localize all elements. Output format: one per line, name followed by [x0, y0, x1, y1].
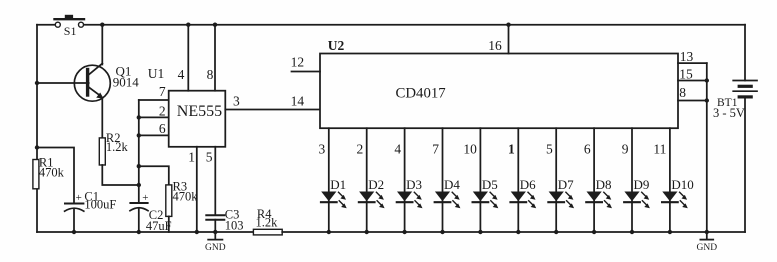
wire cathode D5 [479, 128, 481, 232]
wire pin1 to rail [196, 147, 198, 232]
capacitor C2 [130, 192, 172, 233]
ground center [205, 232, 226, 253]
wire cathode D3 [404, 128, 406, 232]
svg-text:D7: D7 [558, 177, 574, 192]
svg-text:470k: 470k [173, 189, 199, 203]
LED D4 [435, 177, 461, 208]
wire pin5 to C3 [214, 147, 216, 215]
wire top rail left segment [37, 24, 55, 26]
svg-text:NE555: NE555 [177, 103, 222, 120]
svg-text:13: 13 [680, 49, 694, 64]
svg-text:3: 3 [319, 142, 326, 157]
LED D8 [586, 177, 612, 208]
LED D5 [473, 177, 499, 208]
svg-text:5: 5 [206, 150, 213, 165]
wire pin3 to pin14 [225, 109, 320, 111]
svg-text:D10: D10 [671, 177, 693, 192]
wire cathode D10 [669, 128, 671, 232]
wire bottom rail left [37, 231, 253, 233]
node R2 tee [137, 183, 141, 187]
wire pin8 stub [678, 100, 707, 102]
resistor R1 [33, 156, 65, 189]
node D6 rail [516, 230, 520, 234]
svg-text:9014: 9014 [113, 75, 140, 90]
svg-text:D8: D8 [596, 177, 612, 192]
svg-text:+: + [142, 192, 148, 204]
svg-text:CD4017: CD4017 [396, 86, 446, 102]
ground right [697, 232, 718, 253]
svg-text:15: 15 [679, 66, 693, 81]
svg-text:1: 1 [508, 142, 515, 157]
svg-text:GND: GND [205, 243, 226, 253]
IC U2 CD4017 [291, 38, 694, 128]
svg-text:D2: D2 [368, 177, 384, 192]
svg-text:100uF: 100uF [84, 197, 116, 211]
wire cathode D8 [593, 128, 595, 232]
svg-text:470k: 470k [39, 165, 65, 179]
node pin8 rail [213, 23, 217, 27]
resistor R3 [166, 180, 198, 217]
node pin6 tee [137, 133, 141, 137]
wire pin7 stub [139, 99, 169, 101]
node collector-rail [100, 23, 104, 27]
LED D2 [359, 177, 385, 208]
wire cathode D7 [555, 128, 557, 232]
transistor Q1 [74, 64, 139, 102]
node D8 rail [592, 230, 596, 234]
wire bottom rail right [282, 231, 745, 233]
capacitor C3 [206, 208, 243, 233]
svg-text:+: + [76, 192, 82, 204]
svg-text:14: 14 [291, 94, 305, 109]
node pin8 tee [705, 98, 709, 102]
wire collector up [101, 25, 103, 65]
node R3 tee [137, 164, 141, 168]
svg-text:U2: U2 [328, 38, 345, 53]
svg-text:S1: S1 [64, 24, 77, 38]
svg-text:16: 16 [488, 38, 502, 53]
svg-text:D5: D5 [482, 177, 498, 192]
svg-text:U1: U1 [148, 66, 165, 81]
LED D9 [624, 177, 650, 208]
svg-text:1: 1 [188, 150, 195, 165]
svg-text:7: 7 [159, 84, 166, 99]
node base junction [35, 81, 39, 85]
node D4 rail [440, 230, 444, 234]
svg-text:6: 6 [159, 121, 166, 136]
wire pin8 to rail [214, 25, 216, 91]
resistor R2 [99, 131, 128, 165]
svg-text:11: 11 [653, 142, 666, 157]
wire emitter down [101, 99, 103, 138]
wire C2 to rail [138, 208, 140, 232]
wire pin12 stub [292, 71, 321, 73]
wire base of Q1 [37, 82, 89, 84]
svg-text:1.2k: 1.2k [256, 215, 279, 229]
wire C1 to rail [73, 209, 75, 232]
svg-text:8: 8 [679, 85, 686, 100]
battery BT1 [713, 25, 757, 232]
wire R3 branch [139, 166, 169, 185]
switch S1 [55, 15, 85, 38]
svg-text:2: 2 [356, 142, 363, 157]
node C1 rail [72, 230, 76, 234]
node pin4 rail [186, 23, 190, 27]
node C1 branch tee [35, 145, 39, 149]
svg-text:D6: D6 [520, 177, 536, 192]
svg-text:6: 6 [584, 142, 591, 157]
wire C3 to rail [214, 220, 216, 232]
node pin16 rail [506, 23, 510, 27]
svg-text:47uF: 47uF [146, 219, 172, 233]
wire pin16 [508, 25, 510, 54]
svg-text:7: 7 [432, 142, 439, 157]
wire top rail main [84, 24, 745, 26]
wire pin4 to rail [187, 25, 189, 91]
svg-text:2: 2 [159, 104, 166, 119]
svg-text:9: 9 [622, 142, 629, 157]
wire C1 branch [37, 148, 74, 204]
LED D10 [662, 177, 694, 208]
node gnd rail [705, 230, 709, 234]
wire cathode D4 [442, 128, 444, 232]
wire cathode D6 [517, 128, 519, 232]
wire pin15 stub [678, 80, 707, 82]
svg-text:D3: D3 [406, 177, 422, 192]
LED D6 [511, 177, 537, 208]
node C3 rail [213, 230, 217, 234]
svg-text:10: 10 [463, 142, 477, 157]
svg-text:GND: GND [697, 243, 718, 253]
svg-text:4: 4 [178, 67, 185, 82]
wire pin6 stub [139, 134, 169, 136]
node D10 rail [668, 230, 672, 234]
capacitor C1 [65, 190, 117, 212]
svg-text:D4: D4 [444, 177, 460, 192]
svg-text:1.2k: 1.2k [106, 140, 129, 154]
wire cathode D1 [328, 128, 330, 232]
node D9 rail [630, 230, 634, 234]
node pin1 rail [195, 230, 199, 234]
node D2 rail [365, 230, 369, 234]
svg-text:4: 4 [394, 142, 401, 157]
svg-text:12: 12 [291, 54, 305, 69]
wire right pins vertical [706, 63, 708, 232]
LED D3 [397, 177, 423, 208]
wire left rail [36, 25, 38, 232]
svg-text:103: 103 [225, 219, 244, 233]
wire cathode D2 [366, 128, 368, 232]
node pin2 tee [137, 115, 141, 119]
node C2 rail [137, 230, 141, 234]
svg-text:D1: D1 [330, 177, 346, 192]
LED D1 [321, 177, 347, 208]
svg-text:5: 5 [546, 142, 553, 157]
wire pin2 stub [139, 116, 169, 118]
wire cathode D9 [631, 128, 633, 232]
svg-text:D9: D9 [634, 177, 650, 192]
wire R2 bottom to net [102, 165, 139, 185]
node D5 rail [478, 230, 482, 234]
wire R3 to rail [168, 216, 170, 232]
op-amp U1 NE555 [148, 66, 240, 165]
LED D7 [548, 177, 574, 208]
node D3 rail [402, 230, 406, 234]
svg-text:3: 3 [233, 94, 240, 109]
node pin15 tee [705, 78, 709, 82]
svg-text:3 - 5V: 3 - 5V [713, 106, 745, 120]
wire trigger net vertical [138, 100, 140, 203]
wire pin13 stub [678, 62, 707, 64]
svg-text:8: 8 [207, 67, 214, 82]
node D1 rail [327, 230, 331, 234]
node D7 rail [554, 230, 558, 234]
resistor R4 [253, 207, 282, 235]
